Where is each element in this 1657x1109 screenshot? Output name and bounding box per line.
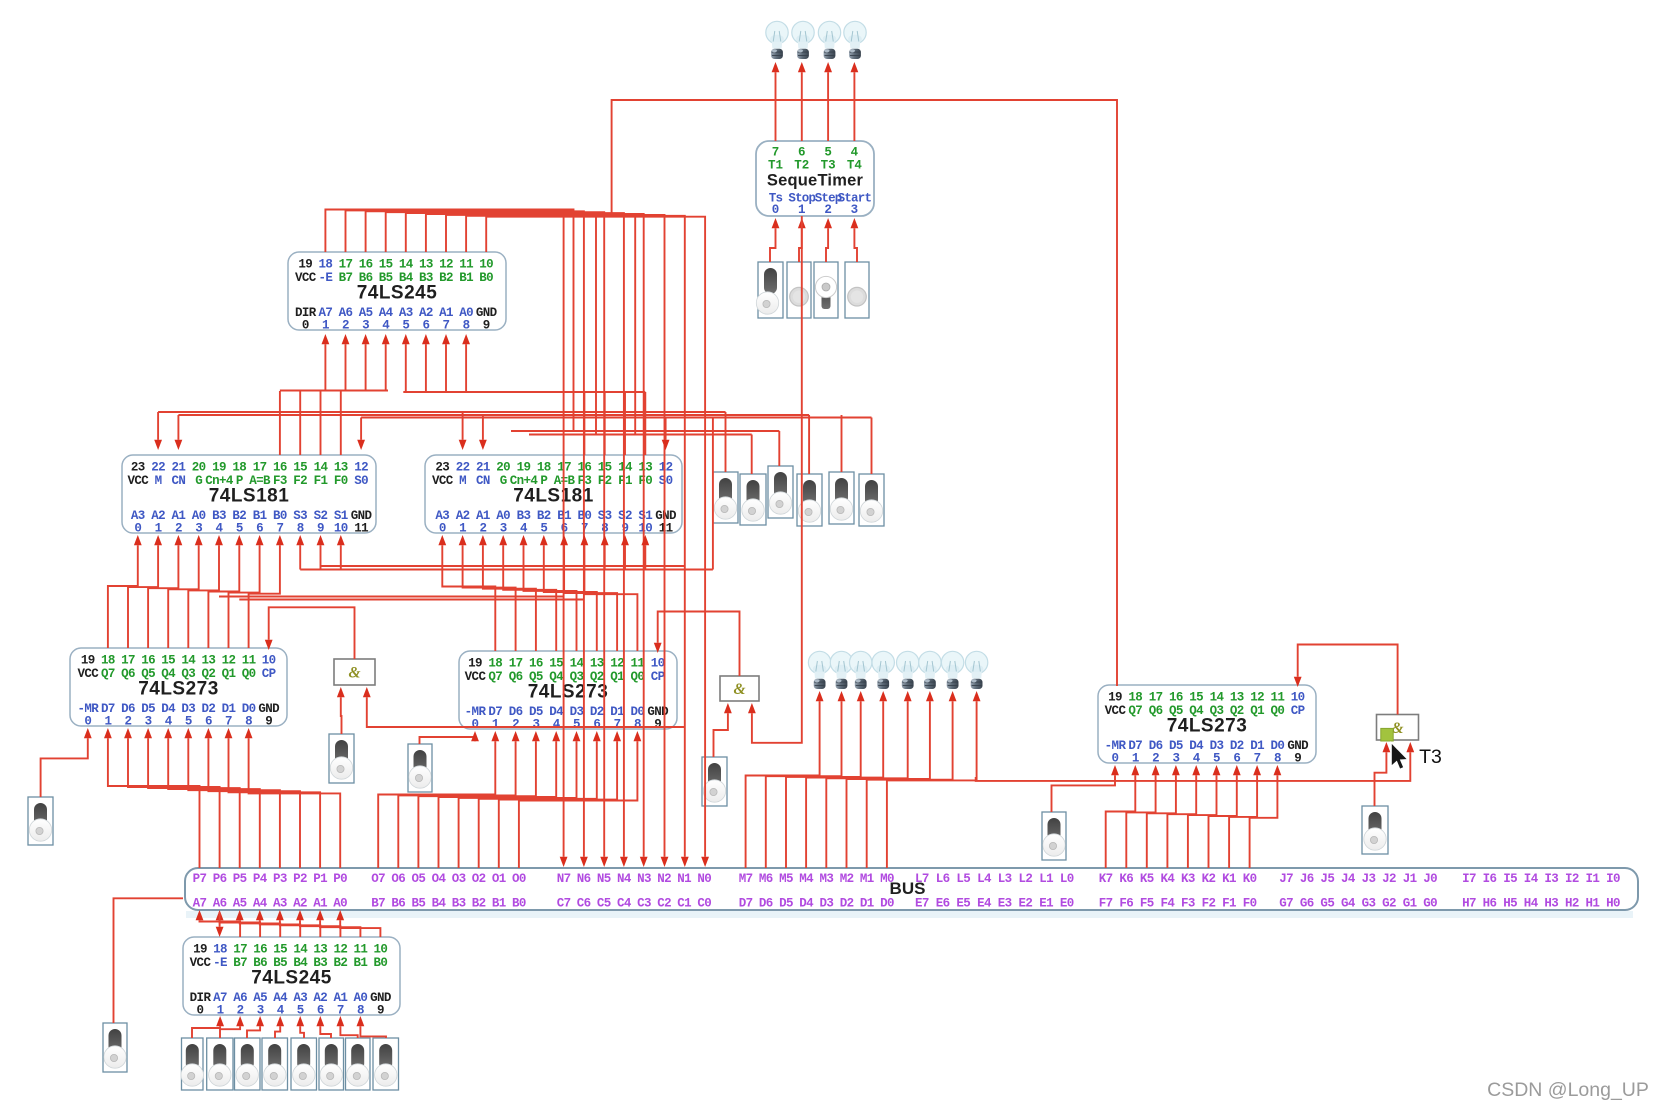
wire U4 Q to U2 operand [148,535,182,648]
svg-text:E2: E2 [1018,897,1032,911]
svg-text:2: 2 [342,319,349,333]
svg-text:4: 4 [851,146,859,160]
IC U3 74LS181 (right ALU) [425,455,682,536]
svg-text:I3: I3 [1544,872,1558,886]
svg-text:6: 6 [205,715,212,729]
lamp L12 (bus M0) [965,651,987,689]
svg-text:10: 10 [638,522,652,536]
switch SW7 (ALU mode select) [768,466,793,518]
svg-text:M3: M3 [819,872,833,886]
svg-text:VCC: VCC [432,474,454,488]
svg-text:C5: C5 [597,897,611,911]
svg-text:J7: J7 [1279,872,1293,886]
wire U4 Q to U2 operand [168,535,202,648]
svg-text:T3: T3 [1419,746,1442,768]
svg-text:M4: M4 [799,872,814,886]
svg-text:10: 10 [374,943,388,957]
svg-text:P5: P5 [233,872,247,886]
svg-text:3: 3 [500,522,507,536]
svg-text:M7: M7 [739,872,753,886]
switch SW13 (AND A2 input) [702,757,727,806]
svg-text:O4: O4 [432,872,447,886]
svg-text:B2: B2 [333,956,347,970]
svg-text:B1: B1 [459,271,473,285]
svg-text:E1: E1 [1039,897,1053,911]
IC U7 74LS245 (bottom transceiver) [183,937,400,1018]
svg-text:3: 3 [257,1004,264,1018]
wire BUS O line to U5 D input [479,731,601,868]
svg-text:N2: N2 [657,872,671,886]
svg-text:19: 19 [81,654,95,668]
svg-text:13: 13 [313,943,327,957]
svg-text:D0: D0 [880,897,894,911]
svg-text:D6: D6 [759,897,773,911]
wire U7 B output to BUS A line [196,910,241,937]
lamp L9 (bus M3) [897,651,919,689]
svg-text:A2: A2 [293,897,307,911]
svg-text:14: 14 [293,943,308,957]
svg-text:F2: F2 [293,474,307,488]
wire right F-bus horizontal [403,391,645,393]
wire U4 Q to U2 operand [249,535,284,648]
wire S input into 74LS181 [317,535,325,570]
wire mode into 74LS181 top pin [357,418,365,451]
svg-text:M6: M6 [759,872,773,886]
svg-text:F1: F1 [314,474,328,488]
svg-text:14: 14 [399,258,414,272]
wire S bus upper [321,565,685,567]
wire S bus lower [300,569,713,571]
wire SW9 feed [841,415,843,472]
IC U2 74LS181 (left ALU) [122,455,376,536]
wire U1 B bus to BUS N line [366,211,588,867]
svg-text:Q6: Q6 [509,670,523,684]
svg-text:H1: H1 [1586,897,1600,911]
lamp L11 (bus M1) [941,651,963,689]
svg-text:Q0: Q0 [242,667,256,681]
wire U2 F output up [320,391,322,455]
svg-text:5: 5 [402,319,409,333]
svg-text:0: 0 [197,1004,204,1018]
svg-text:A5: A5 [233,897,247,911]
svg-text:Q1: Q1 [1250,704,1264,718]
svg-text:13: 13 [638,461,652,475]
svg-text:14: 14 [618,461,633,475]
svg-text:N3: N3 [637,872,651,886]
IC U4 74LS273 (left register) [70,648,287,729]
svg-text:G6: G6 [1300,897,1314,911]
svg-text:16: 16 [253,943,267,957]
svg-text:19: 19 [212,461,226,475]
svg-text:J3: J3 [1362,872,1376,886]
svg-text:13: 13 [201,654,215,668]
svg-text:G7: G7 [1279,897,1293,911]
svg-text:3: 3 [532,718,539,732]
svg-text:0: 0 [302,319,309,333]
switch SW17 (U7 -E) [103,1023,127,1072]
svg-text:C4: C4 [617,897,632,911]
svg-text:12: 12 [222,654,236,668]
svg-text:18: 18 [318,258,332,272]
wire mode into 74LS181 top pin [175,415,183,450]
wire SW12 to U5 -MR [420,731,479,744]
svg-text:3: 3 [145,715,152,729]
svg-text:S0: S0 [659,474,673,488]
svg-text:10: 10 [262,654,276,668]
svg-text:17: 17 [233,943,247,957]
switch SW6 (ALU mode select) [740,474,766,525]
wire A1 output to U4 CP [265,607,355,659]
svg-text:C7: C7 [557,897,571,911]
svg-text:12: 12 [439,258,453,272]
svg-text:4: 4 [165,715,173,729]
svg-text:CSDN @Long_UP: CSDN @Long_UP [1487,1079,1649,1101]
svg-text:E4: E4 [977,897,992,911]
svg-text:18: 18 [1128,691,1142,705]
svg-text:1: 1 [459,522,466,536]
node T3 selection handle [1381,728,1393,741]
svg-text:1: 1 [155,522,162,536]
svg-text:N5: N5 [597,872,611,886]
wire BUS P line to U4 D input [245,728,341,868]
wire F-bus into U1 A pin [422,334,430,391]
wire bundle branch [634,216,636,435]
svg-text:23: 23 [131,461,145,475]
svg-text:G: G [195,474,202,488]
svg-text:P4: P4 [253,872,268,886]
wire BUS O line to U5 D input [398,731,519,868]
wire timer T output to lamp [851,62,859,141]
svg-text:F4: F4 [1160,897,1175,911]
svg-text:F1: F1 [618,474,632,488]
svg-text:G0: G0 [1423,897,1437,911]
svg-text:H7: H7 [1462,897,1476,911]
switch SW11 (AND A1 input) [329,734,354,783]
gate A3 AND (right, drives U6 CP) [1377,715,1419,741]
wire data switch to U7 A input [220,1016,244,1038]
svg-text:16: 16 [359,258,373,272]
svg-text:0: 0 [1112,752,1119,766]
wire to U7 -E [216,912,224,937]
svg-text:20: 20 [496,461,510,475]
svg-text:7: 7 [276,522,283,536]
svg-text:C1: C1 [677,897,691,911]
svg-text:T3: T3 [821,159,836,173]
svg-text:J4: J4 [1341,872,1356,886]
svg-text:G4: G4 [1341,897,1356,911]
wire data switch to U7 A input [316,1016,331,1038]
svg-text:0: 0 [84,715,91,729]
wire U1 B bus to BUS N line [406,213,628,867]
svg-text:11: 11 [659,522,673,536]
svg-text:M5: M5 [779,872,793,886]
svg-text:4: 4 [277,1004,285,1018]
svg-text:15: 15 [273,943,287,957]
svg-text:1: 1 [1132,752,1139,766]
wire BUS P line to U4 D input [205,728,301,868]
svg-text:6: 6 [317,1004,324,1018]
wire U2 F output up [299,391,301,455]
svg-text:K4: K4 [1160,872,1175,886]
svg-text:O7: O7 [371,872,385,886]
svg-text:10: 10 [1291,691,1305,705]
switch SW20 (data bit 5) [235,1038,261,1090]
svg-text:B0: B0 [479,271,493,285]
svg-text:G3: G3 [1362,897,1376,911]
svg-text:14: 14 [181,654,196,668]
wire U4 Q to U2 operand [108,535,142,648]
wire BUS K line to U6 D input [1250,765,1282,868]
svg-text:9: 9 [377,1004,384,1018]
svg-text:J2: J2 [1382,872,1396,886]
wire U7 B output to BUS A line [236,910,280,937]
svg-text:13: 13 [590,657,604,671]
wire S-bundle drop [712,418,714,570]
svg-text:J1: J1 [1403,872,1417,886]
svg-text:6: 6 [798,146,806,160]
svg-text:0: 0 [472,718,479,732]
switch SW21 (data bit 4) [262,1038,288,1090]
wire BUS P line to U4 D input [164,728,259,868]
switch SW12 (U5 -MR) [408,744,432,792]
svg-text:B5: B5 [411,897,425,911]
lamp L7 (bus M5) [850,651,872,689]
wire BUS M line to lamp [786,691,865,868]
svg-text:15: 15 [1189,691,1203,705]
svg-text:0: 0 [134,522,141,536]
wire timer pin1 node to gate A2 input [748,216,802,743]
wire F-bus into U1 A pin [322,334,330,391]
svg-text:B3: B3 [452,897,466,911]
svg-text:Q1: Q1 [222,667,236,681]
svg-text:E6: E6 [936,897,950,911]
bus backbone BUS [185,868,1638,918]
svg-text:D2: D2 [840,897,854,911]
svg-text:14: 14 [1210,691,1225,705]
wire SW2 to timer pin 1 [798,218,806,262]
IC U5 74LS273 (middle register) [459,651,677,732]
wire SW10 feed [871,418,873,475]
svg-text:11: 11 [242,654,256,668]
wire SW7 feed [778,431,780,466]
wire U5 Q to U3 operand [479,535,536,651]
svg-text:G2: G2 [1382,897,1396,911]
svg-text:K6: K6 [1119,872,1133,886]
wire U1 B bus to BUS N line [426,214,648,867]
switch SW23 (data bit 2) [319,1038,344,1090]
wire BUS K line to U6 D input [1209,765,1241,868]
svg-text:74LS245: 74LS245 [251,968,332,989]
wire SW4 to timer pin 3 [851,218,859,262]
svg-text:7: 7 [614,718,621,732]
wire U4 Q to U2 operand [229,535,264,648]
svg-text:7: 7 [337,1004,344,1018]
svg-text:A6: A6 [213,897,227,911]
svg-text:15: 15 [549,657,563,671]
svg-text:CP: CP [1291,704,1305,718]
svg-text:15: 15 [293,461,307,475]
wire U4 Q to U2 operand [188,535,223,648]
wire mode bus M [158,411,725,413]
wire BUS M line to lamp [746,691,824,868]
svg-text:Q6: Q6 [121,667,135,681]
svg-text:J0: J0 [1423,872,1437,886]
svg-text:H6: H6 [1483,897,1497,911]
svg-text:I5: I5 [1503,872,1517,886]
svg-text:O2: O2 [472,872,486,886]
svg-text:N1: N1 [677,872,691,886]
svg-text:N0: N0 [697,872,711,886]
mouse cursor [1391,743,1408,770]
svg-text:18: 18 [488,657,502,671]
wire bundle branch [595,216,597,435]
svg-text:8: 8 [634,718,641,732]
svg-text:12: 12 [333,943,347,957]
wire BUS K line to U6 D input [1106,765,1140,868]
svg-text:I1: I1 [1586,872,1600,886]
wire BUS M line to lamp [867,691,957,868]
svg-text:74LS273: 74LS273 [1167,716,1248,737]
svg-text:B7: B7 [233,956,247,970]
svg-text:P3: P3 [273,872,287,886]
svg-text:19: 19 [1108,691,1122,705]
wire SW17 to U7 -E net [114,898,184,1023]
svg-text:I7: I7 [1462,872,1476,886]
wire U5 Q to U3 operand [540,535,597,651]
wire S input into 74LS181 [337,535,345,570]
svg-text:I4: I4 [1524,872,1539,886]
svg-text:2: 2 [512,718,519,732]
svg-text:10: 10 [479,258,493,272]
svg-text:5: 5 [297,1004,304,1018]
svg-text:CN: CN [476,474,490,488]
svg-text:21: 21 [171,461,185,475]
svg-text:F0: F0 [334,474,348,488]
svg-text:B6: B6 [391,897,405,911]
svg-text:4: 4 [1193,752,1201,766]
svg-text:Q0: Q0 [1270,704,1284,718]
svg-text:4: 4 [520,522,528,536]
wire U3 F output up [644,392,646,455]
svg-text:8: 8 [1274,752,1281,766]
svg-text:9: 9 [654,718,661,732]
svg-text:21: 21 [476,461,490,475]
svg-text:7: 7 [225,715,232,729]
wire U4 Q to U2 operand [208,535,243,648]
svg-text:I2: I2 [1565,872,1579,886]
svg-text:H3: H3 [1544,897,1558,911]
wire BUS M line to lamp [847,691,934,868]
svg-text:P2: P2 [293,872,307,886]
svg-text:E3: E3 [998,897,1012,911]
svg-text:1: 1 [798,203,806,217]
wire timer T output to lamp [772,62,780,141]
wire B-bus filler [219,596,564,598]
wire mode bus CN [178,414,809,416]
svg-text:11: 11 [1270,691,1284,705]
svg-text:18: 18 [232,461,246,475]
svg-text:VCC: VCC [77,667,99,681]
wire U1 B bus to BUS N line [386,212,608,867]
svg-text:P1: P1 [313,872,327,886]
svg-text:&: & [348,665,360,682]
wire F-bus into U1 A pin [462,334,470,391]
svg-text:L6: L6 [936,872,950,886]
wire U1 B bus to BUS N line [346,210,568,867]
svg-text:D7: D7 [739,897,753,911]
svg-text:H4: H4 [1524,897,1539,911]
svg-text:F3: F3 [1181,897,1195,911]
svg-text:L3: L3 [998,872,1012,886]
svg-text:M2: M2 [840,872,854,886]
svg-text:13: 13 [419,258,433,272]
wire U7 B output to BUS A line [316,910,360,937]
svg-text:SequeTimer: SequeTimer [767,172,864,190]
svg-text:Q7: Q7 [101,667,115,681]
watermark [1487,1079,1649,1101]
switch SW4 (timer Start) [845,262,869,318]
svg-text:18: 18 [101,654,115,668]
switch SW8 (ALU mode select) [797,474,822,526]
wire data switch to U7 A input [247,1016,264,1038]
wire SW5 feed [725,412,727,472]
svg-text:9: 9 [1294,752,1301,766]
svg-text:Q0: Q0 [630,670,644,684]
svg-text:16: 16 [273,461,287,475]
svg-text:19: 19 [193,943,207,957]
wire BUS O line to U5 D input [378,731,499,868]
svg-text:H2: H2 [1565,897,1579,911]
svg-text:7: 7 [1254,752,1261,766]
svg-text:8: 8 [357,1004,364,1018]
svg-text:B0: B0 [374,956,388,970]
wire BUS K line to U6 D input [1188,765,1221,868]
svg-text:17: 17 [1149,691,1163,705]
svg-text:O1: O1 [492,872,506,886]
svg-text:B2: B2 [472,897,486,911]
svg-text:K2: K2 [1202,872,1216,886]
svg-text:7: 7 [772,146,780,160]
wire F-bus into U1 A pin [442,334,450,391]
svg-text:L4: L4 [977,872,992,886]
svg-text:G: G [500,474,507,488]
svg-text:5: 5 [824,146,832,160]
wire U5 Q to U3 operand [560,535,617,651]
svg-text:B1: B1 [492,897,506,911]
wire SW3 to timer pin 2 [824,218,832,262]
svg-text:-E: -E [213,956,227,970]
switch SW18 (data bit 7) [181,1038,203,1090]
wire BUS M line to lamp [766,691,846,868]
wire SW11 to A1 input [337,687,345,734]
svg-text:3: 3 [851,203,859,217]
wire timer T output to lamp [798,62,806,141]
svg-text:13: 13 [334,461,348,475]
wire U5 Q to U3 operand [520,535,577,651]
wire data switch to U7 A input [337,1016,358,1038]
wire BUS K line to U6 D input [1167,765,1200,868]
wire data switch to U7 A input [275,1016,284,1038]
svg-text:K3: K3 [1181,872,1195,886]
wire node to A1 input [363,687,685,727]
svg-text:22: 22 [456,461,470,475]
wire BUS K line to U6 D input [1126,765,1159,868]
svg-text:16: 16 [1169,691,1183,705]
svg-text:VCC: VCC [127,474,149,488]
svg-text:F0: F0 [638,474,652,488]
svg-text:P0: P0 [333,872,347,886]
wire BUS O line to U5 D input [418,731,539,868]
